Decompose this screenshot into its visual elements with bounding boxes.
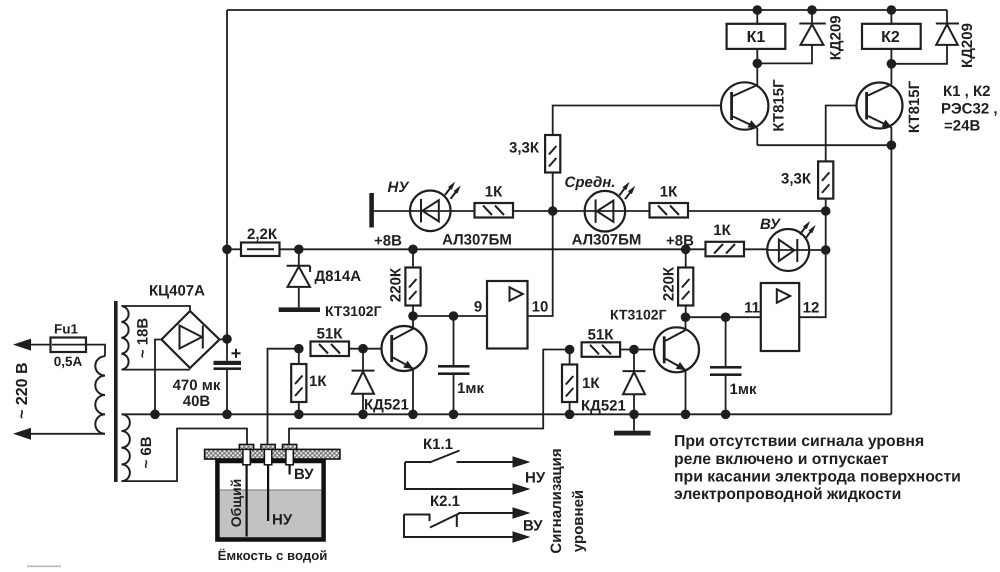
LED AL307BM NU: [410, 182, 461, 232]
node: [408, 410, 418, 420]
svg-text:40В: 40В: [183, 393, 211, 410]
svg-text:220К: 220К: [661, 266, 678, 301]
svg-text:1К: 1К: [713, 222, 731, 239]
node VU cathode: [821, 245, 831, 255]
svg-text:~ 6В: ~ 6В: [138, 436, 155, 468]
node: [629, 410, 639, 420]
wire pin 12 riser: [799, 211, 826, 317]
wire to pin 9: [413, 315, 487, 317]
node: [681, 410, 691, 420]
svg-text:при касании электрода поверхно: при касании электрода поверхности: [674, 469, 961, 486]
svg-text:220К: 220К: [388, 267, 405, 302]
svg-text:Общий: Общий: [228, 479, 244, 528]
svg-text:1мк: 1мк: [730, 381, 757, 398]
wire: [86, 345, 105, 357]
svg-text:КТ3102Г: КТ3102Г: [610, 307, 667, 323]
resistor 1K VU row: [706, 242, 768, 256]
svg-text:1К: 1К: [582, 375, 600, 392]
resistor 51K left: [311, 342, 391, 357]
svg-text:КД521: КД521: [581, 398, 626, 415]
svg-text:КД521: КД521: [364, 397, 409, 414]
diode KD209 first: [757, 10, 826, 63]
node: [887, 5, 897, 15]
electrode cap common: [239, 444, 253, 449]
transformer secondary 18V winding: [122, 306, 129, 370]
svg-text:ВУ: ВУ: [523, 518, 543, 535]
op-amp U1: [487, 281, 528, 349]
emitter link wire: [757, 144, 891, 146]
capacitor 470uF 40V: [214, 339, 242, 414]
node: [449, 311, 459, 321]
node: [565, 345, 575, 355]
svg-text:К1 , К2: К1 , К2: [943, 83, 991, 100]
svg-text:9: 9: [474, 299, 482, 316]
resistor 1K NU row: [451, 203, 553, 218]
svg-text:КТ3102Г: КТ3102Г: [325, 303, 382, 319]
node LED row junction: [548, 206, 558, 216]
zener diode D814A: [287, 249, 311, 307]
svg-text:1К: 1К: [309, 373, 327, 390]
node: [150, 410, 160, 420]
switch K1.1: [405, 451, 531, 495]
svg-text:0,5А: 0,5А: [54, 354, 83, 369]
node: [294, 245, 304, 255]
node 3,3K second junction: [821, 206, 831, 216]
capacitor 1uF left: [438, 316, 470, 414]
node: [408, 311, 418, 321]
scan artifact dash: [27, 566, 61, 568]
node: [753, 59, 763, 69]
resistor 1K vertical right: [562, 350, 577, 415]
svg-text:НУ: НУ: [525, 470, 546, 487]
node: [629, 345, 639, 355]
op-amp U2: [761, 283, 799, 351]
svg-text:РЭС32 ,: РЭС32 ,: [941, 101, 998, 118]
svg-text:1мк: 1мк: [457, 380, 484, 397]
transformer core: [114, 301, 118, 482]
resistor 220K right: [678, 249, 693, 317]
transistor KT815G Q1: [721, 63, 768, 145]
node: [449, 410, 459, 420]
tank walls: [217, 461, 323, 540]
diode KD521 left: [352, 349, 375, 415]
resistor 3,3K second: [818, 106, 865, 212]
svg-text:Средн.: Средн.: [564, 174, 615, 191]
relay K2: [862, 10, 921, 64]
svg-text:К2: К2: [881, 29, 900, 46]
minus bus wire: [122, 413, 892, 415]
node: [887, 59, 897, 69]
tank lid: [205, 449, 340, 459]
resistor 51K right: [582, 342, 663, 357]
node: [681, 312, 691, 322]
svg-text:АЛ307БМ: АЛ307БМ: [572, 232, 642, 249]
node: [294, 344, 304, 354]
svg-text:уровней: уровней: [570, 490, 587, 552]
wire from NU electrode: [268, 349, 299, 445]
transistor KT3102G right Q4: [654, 317, 699, 414]
resistor 1K Sredn row: [625, 203, 826, 218]
svg-text:1К: 1К: [660, 184, 678, 201]
svg-text:51К: 51К: [317, 326, 344, 343]
electrode rod NU: [267, 465, 269, 521]
svg-text:К2.1: К2.1: [430, 493, 460, 510]
node: [721, 312, 731, 322]
wire: [122, 306, 191, 312]
emitter down wire: [890, 145, 892, 414]
mains input arrow top: [13, 339, 31, 351]
wire to common electrode: [122, 429, 248, 482]
svg-text:При отсутствии сигнала уровн: При отсутствии сигнала уровня: [674, 433, 924, 450]
svg-text:470 мк: 470 мк: [173, 377, 221, 394]
wire: [374, 210, 410, 212]
bridge rectifier KC407A: [162, 311, 220, 368]
svg-text:КТ815Г: КТ815Г: [906, 80, 923, 133]
+8V rail wire: [299, 248, 706, 250]
node: [807, 5, 817, 15]
wire: [220, 10, 228, 340]
ground: [614, 431, 651, 436]
svg-text:3,3К: 3,3К: [509, 140, 540, 157]
node: [222, 245, 232, 255]
capacitor 470uF plus sign: [232, 349, 241, 358]
wire: [28, 344, 51, 346]
transistor KT815G Q2: [857, 64, 903, 145]
node: [721, 410, 731, 420]
node: [358, 344, 368, 354]
tank water: [220, 490, 322, 538]
svg-text:АЛ307БМ: АЛ307БМ: [442, 232, 512, 249]
svg-text:10: 10: [532, 299, 549, 316]
relay K1: [727, 10, 786, 63]
ground stub: [633, 414, 635, 430]
svg-text:К1: К1: [747, 29, 766, 46]
LED AL307BM VU: [767, 221, 826, 271]
diode KD209 second: [891, 10, 959, 64]
capacitor 1uF right: [710, 317, 742, 414]
ground: [279, 307, 320, 312]
svg-text:12: 12: [803, 300, 820, 317]
LED AL307BM Sredn: [585, 182, 636, 232]
svg-text:электропроводной жидкости: электропроводной жидкости: [674, 486, 901, 503]
node emitter junction: [887, 140, 897, 150]
resistor 2,2K: [227, 243, 299, 257]
svg-text:Д814А: Д814А: [315, 268, 362, 285]
node: [681, 245, 691, 255]
electrode rod VU: [289, 465, 291, 475]
svg-text:51К: 51К: [588, 327, 615, 344]
node: [565, 410, 575, 420]
resistor 3,3K first: [545, 106, 730, 212]
switch K2.1: [404, 507, 531, 543]
electrode cap VU: [282, 444, 296, 449]
node: [408, 245, 418, 255]
wire: [122, 369, 191, 371]
svg-text:+8В: +8В: [666, 233, 694, 250]
electrode body common: [243, 449, 250, 464]
plus rail top wire: [227, 9, 947, 11]
node: [753, 5, 763, 15]
mains input arrow bottom: [13, 428, 31, 440]
svg-text:=24В: =24В: [944, 118, 980, 135]
svg-text:Сигнализация: Сигнализация: [548, 448, 565, 553]
electrode rod common: [246, 465, 248, 537]
svg-text:ВУ: ВУ: [294, 466, 314, 483]
electrode body VU: [286, 449, 293, 464]
resistor 220K left: [405, 249, 420, 316]
electrode cap NU: [261, 444, 275, 449]
svg-text:+8В: +8В: [374, 233, 402, 250]
transistor KT3102G left Q3: [382, 316, 427, 414]
node bridge output: [222, 334, 232, 344]
svg-text:2,2К: 2,2К: [247, 226, 278, 243]
svg-text:НУ: НУ: [272, 512, 293, 529]
svg-text:КД209: КД209: [959, 23, 976, 68]
wire pin 10 up to LED row: [528, 211, 553, 316]
node: [294, 410, 304, 420]
wire: [28, 433, 105, 435]
svg-text:КЦ407А: КЦ407А: [149, 283, 205, 300]
transformer secondary 6V winding: [122, 414, 130, 481]
svg-text:~ 220 В: ~ 220 В: [14, 362, 31, 418]
wire to pin 11: [686, 316, 761, 318]
svg-text:3,3К: 3,3К: [781, 171, 812, 188]
svg-text:КД209: КД209: [828, 15, 845, 60]
+8V terminal bar NU row: [369, 193, 374, 228]
fuse Fu1: [51, 338, 87, 353]
svg-text:~ 18В: ~ 18В: [135, 318, 152, 359]
svg-text:К1.1: К1.1: [423, 436, 453, 453]
wire: [155, 340, 162, 415]
svg-text:11: 11: [744, 300, 760, 317]
electrode body NU: [264, 449, 271, 464]
node: [358, 410, 368, 420]
diode KD521 right: [623, 350, 646, 415]
wire: [553, 210, 585, 212]
svg-text:Ёмкость с водой: Ёмкость с водой: [218, 548, 328, 563]
resistor 1K vertical left: [291, 349, 306, 415]
svg-text:реле включено и отпускает: реле включено и отпускает: [674, 451, 889, 468]
svg-text:1К: 1К: [485, 184, 503, 201]
transformer primary winding: [95, 356, 105, 434]
svg-text:КТ815Г: КТ815Г: [770, 79, 787, 132]
svg-text:НУ: НУ: [388, 179, 411, 196]
wire from VU electrode: [289, 350, 570, 446]
svg-text:Fu1: Fu1: [54, 322, 78, 337]
node: [222, 410, 232, 420]
